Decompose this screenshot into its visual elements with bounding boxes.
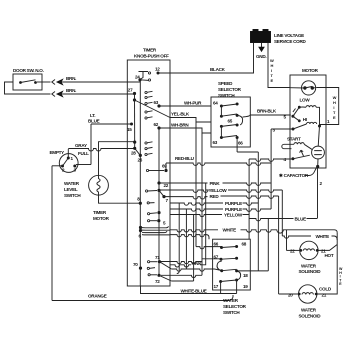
svg-text:63: 63 [213, 140, 218, 145]
node ws 18 [235, 269, 238, 272]
node A5 on rail B [139, 154, 142, 157]
svg-text:66: 66 [238, 141, 243, 146]
blade A2 to yel-blk [135, 100, 171, 118]
svg-text:BLUE: BLUE [88, 119, 100, 124]
svg-text:FULL: FULL [78, 151, 89, 156]
svg-text:71: 71 [155, 255, 160, 260]
svg-text:YELLOW: YELLOW [224, 213, 243, 218]
wire LT BLUE horizontal to timer 15 [91, 123, 132, 125]
svg-text:YEL-BLK: YEL-BLK [171, 112, 190, 117]
node 71 [158, 260, 161, 263]
wire v2 to ws terminal 67 [202, 258, 221, 260]
blade A4 to B [135, 148, 141, 155]
wire WHITE neutral [170, 230, 337, 233]
wire bottom feed to rail v5 [237, 151, 258, 153]
wire white leg from plug to motor [268, 43, 290, 88]
svg-text:WHITE: WHITE [316, 234, 330, 239]
motor terminal 5 [291, 115, 294, 118]
rail va hook [177, 272, 179, 274]
node 24 [138, 78, 141, 81]
speed selector left pole dots [220, 105, 223, 108]
svg-text:72: 72 [155, 279, 160, 284]
wire RED [164, 196, 279, 199]
svg-text:WHITE: WHITE [223, 228, 237, 233]
contact t143 [145, 142, 147, 144]
svg-text:WATER: WATER [301, 263, 317, 268]
blade row3 [222, 269, 237, 270]
node LOW tap lower [298, 119, 301, 122]
rail va [178, 203, 180, 272]
hot water solenoid body [300, 241, 318, 259]
node HI junction [318, 125, 321, 128]
svg-text:2: 2 [320, 181, 323, 186]
svg-text:SPEED: SPEED [218, 81, 233, 86]
wire YELLOW lower [170, 215, 249, 217]
blade 17-19 [221, 280, 237, 282]
svg-text:67: 67 [214, 255, 219, 260]
door switch contact left [19, 81, 22, 84]
rail v5 speed selector feed [257, 152, 259, 271]
timer box [127, 60, 170, 286]
wire YELLOW upper [159, 190, 282, 192]
contact t118 [145, 117, 147, 119]
svg-text:1: 1 [71, 156, 74, 161]
blade 7 [159, 190, 164, 196]
svg-text:START: START [287, 137, 301, 142]
svg-text:BRN-BLK: BRN-BLK [257, 109, 277, 114]
door switch contact right [34, 81, 37, 84]
contact t148 [145, 148, 147, 150]
water level switch terminal 3 [73, 165, 76, 168]
blade 4 to start switch [293, 155, 310, 159]
svg-text:6: 6 [139, 234, 142, 239]
wire black leg from plug [158, 43, 254, 74]
svg-text:63: 63 [154, 100, 159, 105]
blade row3 [221, 125, 237, 127]
motor terminal 4 [291, 157, 294, 160]
speed selector left pole link [220, 106, 222, 138]
contact t103 [145, 102, 147, 104]
svg-text:DOOR SW. N.O.: DOOR SW. N.O. [13, 68, 44, 73]
node 69 [164, 169, 167, 172]
svg-text:15: 15 [127, 127, 132, 132]
svg-text:20: 20 [288, 293, 293, 298]
wire timer motor riser [98, 141, 100, 175]
svg-text:BRN.: BRN. [66, 76, 76, 81]
svg-text:WH-BRN: WH-BRN [171, 123, 189, 128]
svg-text:EMPTY: EMPTY [50, 150, 65, 155]
node ws 66 [220, 246, 223, 249]
svg-text:E: E [333, 115, 336, 120]
svg-text:E: E [339, 282, 342, 286]
wire door switch left loop [5, 82, 51, 94]
cold solenoid terminal 20 [298, 293, 301, 296]
connector male arrow upper [57, 79, 63, 84]
timer motor body [89, 175, 109, 195]
rail v4 motor4 feed [248, 159, 250, 239]
contact to 12 upper [148, 72, 150, 74]
svg-text:YELLOW: YELLOW [209, 188, 228, 193]
svg-text:LEVEL: LEVEL [64, 187, 78, 192]
wire capacitor to bottom [317, 159, 319, 167]
svg-text:TIMER: TIMER [143, 48, 157, 53]
water selector box [213, 239, 251, 290]
wire white stub [282, 236, 337, 240]
hook row3 to row4 [237, 271, 241, 280]
wire hot 22 [287, 249, 301, 251]
wire motor terminal 2 down [317, 167, 319, 219]
motor thermal protector body [302, 81, 316, 95]
capacitor pointer [305, 168, 317, 176]
contact t97 [145, 96, 147, 98]
wire protector to terminal 1 loop [316, 88, 339, 125]
wire 18 out [237, 270, 269, 272]
svg-text:68: 68 [242, 242, 247, 247]
wire door switch right to connector [37, 81, 51, 83]
blade 5 to LOW [293, 107, 299, 121]
svg-text:ORANGE: ORANGE [88, 294, 107, 299]
svg-text:WATER: WATER [64, 181, 80, 186]
svg-text:LT.: LT. [90, 113, 95, 118]
node motor bottom terminal 2 [316, 165, 319, 168]
svg-text:SWITCH: SWITCH [218, 93, 235, 98]
speed selector right pole dots [236, 103, 239, 106]
wire WH-PUR timer 63 to speed selector [159, 105, 211, 107]
node LOW tap upper [298, 106, 301, 109]
wire BLUE [249, 219, 317, 221]
wire 72 blade out [171, 280, 193, 282]
svg-text:69: 69 [162, 164, 167, 169]
node pink start [157, 181, 160, 184]
hot solenoid terminal 21 [316, 249, 319, 252]
svg-text:17: 17 [214, 284, 219, 289]
protector contact left [303, 86, 306, 89]
node timer terminal 29 [133, 147, 136, 150]
node 22 [157, 189, 160, 192]
wire PURPLE 1 [170, 203, 258, 205]
node timer terminal 28 [133, 141, 136, 144]
svg-text:WHITE-BLUE: WHITE-BLUE [181, 289, 207, 294]
wire ORANGE horizontal [52, 295, 233, 301]
wire timer motor bottom to timer [99, 195, 141, 203]
svg-text:12: 12 [155, 67, 160, 72]
wire terminal 2 to left rail [52, 165, 61, 167]
wire WH-BRN timer 62 to speed selector [159, 128, 211, 133]
contact 69 left [146, 169, 148, 171]
contact t268 [147, 267, 149, 269]
wire bus b2 white out [141, 229, 171, 231]
wire PINK upper [159, 183, 271, 185]
wire terminal 3 left [271, 128, 293, 130]
vertical rail B [139, 80, 141, 286]
wire bus b3 [142, 231, 167, 233]
svg-text:BLUE: BLUE [295, 217, 307, 222]
node timer terminal 15 [130, 123, 133, 126]
svg-text:KNOB-PUSH OFF: KNOB-PUSH OFF [134, 54, 169, 59]
motor box [290, 75, 326, 168]
rail v1 [195, 122, 197, 247]
blade white to hot 21 [317, 245, 337, 251]
rail v8 cold feed [278, 196, 280, 294]
protector contact right [311, 86, 314, 89]
svg-text:E: E [271, 78, 274, 83]
node ws row3 left [220, 269, 223, 272]
wire terminal 3 to lt blue riser [76, 164, 91, 166]
door switch DS1 box [13, 74, 42, 90]
protector lead right [312, 87, 315, 89]
start capacitor body [312, 146, 325, 159]
svg-text:GND.: GND. [256, 54, 266, 59]
contact t202 [146, 190, 148, 192]
blade 67 row [221, 257, 237, 260]
wire speed selector bottom feed [236, 138, 238, 153]
node A2 [133, 98, 136, 101]
centrifugal arrow [300, 150, 304, 156]
svg-text:SOLENOID: SOLENOID [299, 314, 322, 319]
vertical rail A [134, 94, 136, 149]
svg-text:PURPLE: PURPLE [225, 201, 242, 206]
connector female lower [52, 92, 55, 97]
contact t213 [148, 213, 150, 215]
wire timer 12 contact bar [139, 72, 149, 80]
svg-text:TIMER: TIMER [93, 210, 107, 215]
svg-text:19: 19 [243, 284, 248, 289]
svg-text:WH-PUR: WH-PUR [184, 101, 202, 106]
node 62 [157, 126, 160, 129]
svg-text:7: 7 [166, 198, 169, 203]
node ws row2 right [235, 257, 238, 260]
vertical rail C [158, 128, 160, 275]
wire gray riser from terminal 1 [67, 149, 69, 158]
svg-text:BLACK: BLACK [210, 67, 226, 72]
svg-text:LOW: LOW [300, 98, 311, 103]
svg-text:HOT: HOT [325, 253, 334, 258]
rail vb [185, 209, 187, 269]
svg-text:RED-BLU: RED-BLU [175, 156, 195, 161]
winding START [294, 143, 304, 145]
wire cold 20 [279, 293, 300, 295]
rail v6 [267, 219, 269, 271]
node timer terminal 12 [157, 72, 160, 75]
svg-text:GRAY: GRAY [75, 143, 87, 148]
hook row2 to row3 [217, 261, 222, 271]
wire RED-BLU [166, 163, 271, 165]
lead LOW taps to coil [299, 106, 306, 108]
wire terminal 4 left with hops [249, 159, 293, 161]
rail v9 yellow to white stub [281, 190, 283, 236]
timer motor coil [97, 176, 100, 195]
contact t219 [148, 220, 150, 222]
svg-text:WATER: WATER [223, 298, 239, 303]
wire timer feed upper to timer motor riser [99, 141, 135, 143]
wire BRN upper to timer [63, 81, 141, 83]
blade row2 [221, 114, 237, 116]
blade row4 [221, 136, 237, 138]
contact to 12 lower [148, 79, 150, 81]
wire PINK lower with riser [170, 183, 206, 267]
node 63 [157, 104, 160, 107]
winding HI [307, 122, 317, 124]
svg-text:SOLENOID: SOLENOID [299, 269, 322, 274]
svg-text:65: 65 [228, 119, 233, 124]
wire v1 to ws terminal 66 [196, 247, 222, 249]
wire 19 down [236, 280, 238, 294]
cold solenoid terminal 21 [315, 293, 318, 296]
wire lt blue riser [90, 124, 92, 165]
svg-text:22: 22 [290, 249, 295, 254]
svg-text:18: 18 [243, 273, 248, 278]
wire 72 out [161, 275, 202, 277]
rail vc [193, 215, 195, 282]
water level switch terminal 1 [67, 157, 70, 160]
blade 66-68 [222, 247, 237, 248]
svg-text:1: 1 [327, 119, 330, 124]
cold water solenoid body [299, 285, 317, 303]
speed selector box [211, 97, 250, 147]
node ws 17 [219, 280, 222, 283]
svg-text:SERVICE CORD: SERVICE CORD [274, 39, 306, 44]
svg-text:SELECTOR: SELECTOR [223, 304, 247, 309]
door switch blade [21, 80, 36, 83]
protector lead left [290, 87, 305, 89]
contact t92 [145, 91, 147, 93]
node 72 [157, 274, 160, 277]
hot solenoid coil [303, 249, 314, 251]
contact t154 [145, 153, 147, 155]
svg-text:28: 28 [131, 151, 136, 156]
cold solenoid coil [302, 293, 313, 295]
node C-220 [157, 219, 160, 222]
contact t261 [148, 261, 150, 263]
svg-text:MOTOR: MOTOR [93, 216, 110, 221]
wire HI junction to capacitor [318, 126, 319, 146]
hot solenoid terminal 22 [299, 249, 302, 252]
rail v7 motor3 feed [270, 129, 272, 209]
ground symbol [261, 43, 263, 48]
svg-text:RED: RED [210, 194, 220, 199]
wire 17 down [220, 282, 222, 294]
svg-text:64: 64 [213, 101, 218, 106]
wire bus b1 [141, 226, 169, 228]
wire BRN lower to timer terminal 27 [63, 93, 135, 95]
wire WHITE-BLUE [141, 286, 237, 294]
wire bus b4 out [142, 234, 170, 236]
node 27 [133, 92, 136, 95]
water level switch terminal 2 [61, 165, 64, 168]
rail v11 white down right side [317, 233, 337, 294]
motor terminal 3 [292, 128, 295, 131]
node 70 [139, 267, 142, 270]
hook to BRN-BLK output [237, 115, 243, 125]
svg-text:MOTOR: MOTOR [302, 68, 319, 73]
water level switch blade 2 to 1 [63, 158, 69, 166]
wire 71 blade out to selector [171, 269, 221, 271]
contact t274 [148, 274, 150, 276]
wire LOW to junction [316, 107, 319, 126]
lead start coil to capacitor [304, 144, 312, 149]
wire 69 riser [165, 163, 167, 171]
svg-text:PURPLE: PURPLE [225, 207, 242, 212]
connector male arrow lower [57, 91, 63, 96]
wire PURPLE 2 [170, 209, 271, 211]
contact t202 [147, 202, 149, 204]
node ws 67 [220, 258, 223, 261]
blade 71 diag [160, 262, 172, 269]
svg-text:HI: HI [303, 117, 307, 122]
svg-text:COLD: COLD [319, 287, 332, 292]
node C-212 [157, 211, 160, 214]
svg-text:LINE VOLTAGE: LINE VOLTAGE [274, 33, 304, 38]
connector female upper [52, 80, 55, 85]
wire bus lower out [170, 235, 209, 240]
svg-text:BRN.: BRN. [66, 88, 76, 93]
svg-text:66: 66 [214, 242, 219, 247]
blade 72 diag [159, 275, 171, 281]
svg-text:4: 4 [284, 157, 287, 162]
svg-text:21: 21 [322, 293, 327, 298]
wire BRN-BLK to motor 5 [243, 115, 291, 117]
svg-text:SWITCH: SWITCH [223, 310, 240, 315]
svg-text:WATER: WATER [301, 308, 317, 313]
svg-text:62: 62 [154, 122, 159, 127]
winding LOW [306, 106, 316, 108]
svg-text:5: 5 [163, 221, 166, 226]
svg-text:SELECTOR: SELECTOR [218, 87, 242, 92]
contact t112 [145, 111, 147, 113]
line voltage service cord plug [251, 32, 271, 43]
svg-text:PINK: PINK [210, 181, 221, 186]
lead 3 to HI coil [293, 124, 307, 129]
svg-text:27: 27 [128, 88, 133, 93]
water level switch body [59, 154, 78, 173]
svg-text:26: 26 [138, 158, 143, 163]
node ws 19 [235, 279, 238, 282]
node ws 68 [235, 245, 238, 248]
node B-230 [139, 229, 142, 232]
rail v10 hot feed [286, 230, 288, 251]
blade 24 to contact [140, 79, 148, 82]
svg-text:✱ CAPACITOR: ✱ CAPACITOR [279, 173, 309, 178]
node B-227 [139, 226, 142, 229]
wire left rail down [51, 166, 53, 301]
rail v2 [201, 133, 203, 275]
wire GRAY horizontal to timer with hops [68, 149, 134, 152]
start winding loop [282, 144, 294, 148]
wire YEL-BLK [170, 118, 211, 123]
svg-text:22: 22 [164, 183, 169, 188]
svg-text:3: 3 [273, 128, 276, 133]
svg-text:70: 70 [133, 262, 138, 267]
wire 71 out [161, 262, 202, 264]
node 7 [162, 195, 165, 198]
capacitor plates [314, 151, 322, 155]
node B-202 [139, 202, 142, 205]
protector blade [305, 86, 312, 88]
blade 64 row [221, 104, 237, 106]
svg-text:SWITCH: SWITCH [64, 193, 81, 198]
